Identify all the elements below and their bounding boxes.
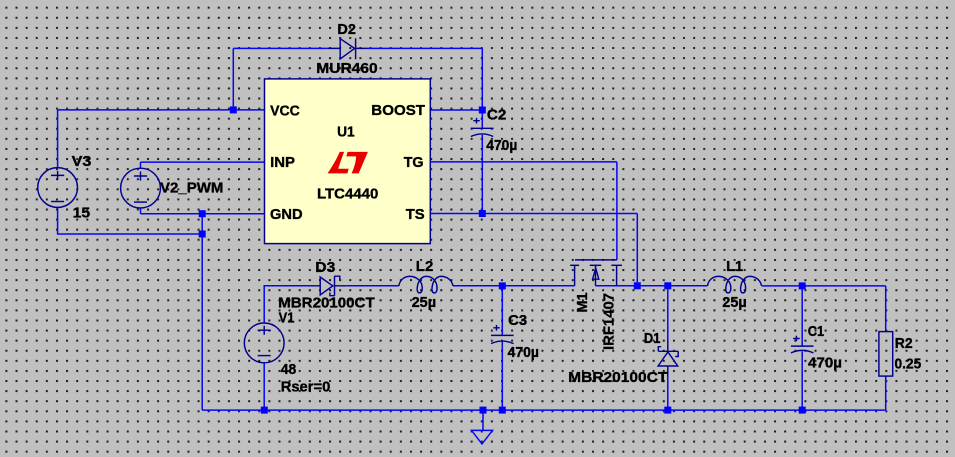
svg-text:TG: TG (404, 154, 424, 171)
svg-text:V2_PWM: V2_PWM (160, 179, 223, 196)
svg-text:MBR20100CT: MBR20100CT (568, 369, 667, 386)
wire L1 to R2 top corner (762, 285, 886, 287)
capacitor C3 (491, 325, 514, 344)
wire TG pin horizontal (430, 161, 617, 163)
svg-text:25µ: 25µ (412, 294, 437, 311)
svg-text:INP: INP (270, 154, 295, 171)
transistor M1 (570, 260, 622, 286)
wire C1 top lead (801, 286, 803, 346)
node junction C1 top (799, 282, 806, 289)
svg-text:BOOST: BOOST (371, 102, 425, 119)
diode D1 (658, 340, 678, 378)
resistor R2 (879, 332, 893, 377)
wire VCC net horizontal (58, 109, 265, 111)
node junction C1 bottom (799, 407, 806, 414)
svg-text:D1: D1 (644, 330, 661, 347)
node junction D1 top (664, 282, 671, 289)
svg-text:IRF1407: IRF1407 (600, 293, 617, 350)
svg-text:L1: L1 (726, 258, 743, 275)
wire V1 top lead (264, 286, 308, 323)
svg-text:C2: C2 (487, 106, 507, 123)
capacitor C1 (791, 336, 814, 353)
wire TS pin horizontal (430, 213, 637, 215)
svg-text:TS: TS (406, 206, 425, 223)
wire C1 bottom lead (801, 351, 803, 410)
svg-text:Rser=0: Rser=0 (281, 378, 331, 395)
svg-text:MBR20100CT: MBR20100CT (278, 294, 375, 311)
ground (472, 430, 493, 444)
svg-text:M1: M1 (574, 293, 591, 313)
wire C2 bottom lead (481, 135, 483, 214)
svg-text:VCC: VCC (270, 102, 300, 119)
wire D1 bottom lead (667, 378, 669, 411)
node junction GND V2 (199, 210, 206, 217)
wire bottom ground rail (202, 409, 886, 411)
wire D3 cathode to L2 (347, 285, 399, 287)
wire V1 bottom lead (263, 363, 265, 410)
svg-text:L2: L2 (416, 258, 434, 275)
wire top rail right of D2 (368, 47, 482, 49)
IC U1 LTC4440 box (265, 79, 431, 244)
svg-text:C3: C3 (508, 312, 527, 329)
inductor L1 (708, 276, 762, 293)
svg-text:LTC4440: LTC4440 (317, 186, 378, 203)
svg-text:48: 48 (281, 361, 297, 378)
wire top rail down to BOOST (481, 48, 483, 110)
svg-text:D2: D2 (337, 21, 356, 38)
wire VCC junction to top rail vertical (232, 48, 234, 110)
wire ground stub (482, 410, 484, 430)
node junction C3 bottom (499, 407, 506, 414)
node junction TS source (634, 282, 641, 289)
svg-text:470µ: 470µ (508, 344, 539, 361)
svg-text:GND: GND (270, 206, 303, 223)
node junction BOOST C2 (479, 107, 486, 114)
wire M1 source to L1 (596, 285, 708, 287)
svg-text:R2: R2 (895, 335, 913, 352)
wire V2 top stub (140, 162, 142, 168)
svg-text:C1: C1 (808, 323, 825, 340)
node junction TS C2 (479, 210, 486, 217)
svg-text:470µ: 470µ (486, 137, 517, 154)
wire R2 top lead (885, 286, 887, 332)
svg-text:25µ: 25µ (722, 294, 747, 311)
svg-text:V1: V1 (279, 310, 295, 327)
node junction D1 bottom (664, 407, 671, 414)
wire top rail left of D2 (233, 47, 328, 49)
wire V2 bottom stub (140, 208, 142, 214)
wire C3 top lead (501, 286, 503, 336)
svg-text:0.25: 0.25 (895, 356, 922, 373)
node junction VCC tap (230, 106, 237, 113)
wire L2 to M1 drain (453, 285, 575, 287)
svg-text:15: 15 (73, 205, 91, 222)
svg-text:D3: D3 (315, 259, 335, 276)
wire C2 top lead (481, 110, 483, 128)
wire V3 top stub (57, 110, 59, 168)
node junction ground stub (480, 407, 487, 414)
wire BOOST pin (430, 109, 482, 111)
wire TG vertical to gate (616, 162, 618, 260)
U1 LT logo (328, 152, 368, 174)
node junction GND V3 (199, 231, 206, 238)
wire GND net vertical down to rail (201, 214, 203, 410)
inductor L2 (399, 276, 453, 293)
svg-text:V3: V3 (72, 153, 92, 170)
svg-text:470µ: 470µ (808, 355, 842, 372)
svg-text:MUR460: MUR460 (316, 60, 377, 77)
node junction C3 top (499, 282, 506, 289)
wire INP pin to V2 (141, 161, 265, 163)
wire C3 bottom lead (501, 342, 503, 410)
wire D1 top lead (667, 286, 669, 340)
svg-text:U1: U1 (337, 123, 355, 140)
node junction V1 bottom (261, 407, 268, 414)
capacitor C2 (471, 118, 494, 137)
voltage source V1 (244, 323, 284, 363)
voltage source V2 (121, 168, 161, 208)
wire TS vertical to source node (636, 214, 638, 286)
wire R2 bottom lead (885, 376, 887, 410)
wire V3 bottom stub (58, 208, 203, 235)
diode D2 (328, 38, 368, 59)
wire GND pin horizontal (141, 213, 265, 215)
voltage source V3 (38, 168, 78, 208)
diode D3 (308, 276, 347, 296)
